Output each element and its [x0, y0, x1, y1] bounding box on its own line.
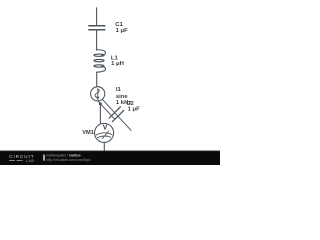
svg-text:sine: sine: [116, 94, 129, 100]
svg-text:I1: I1: [116, 87, 122, 93]
svg-text:1 μF: 1 μF: [116, 28, 129, 34]
svg-text:1 μH: 1 μH: [111, 61, 124, 67]
svg-text:1 μF: 1 μF: [128, 106, 141, 112]
svg-text:VM1: VM1: [82, 130, 94, 136]
svg-text:LAB: LAB: [26, 159, 35, 163]
svg-text:V: V: [103, 125, 108, 132]
svg-text:http://circuitlab.com/cnxv5bp4: http://circuitlab.com/cnxv5bp4: [46, 158, 91, 162]
svg-text:mathewpalmi / mathes: mathewpalmi / mathes: [46, 153, 81, 157]
